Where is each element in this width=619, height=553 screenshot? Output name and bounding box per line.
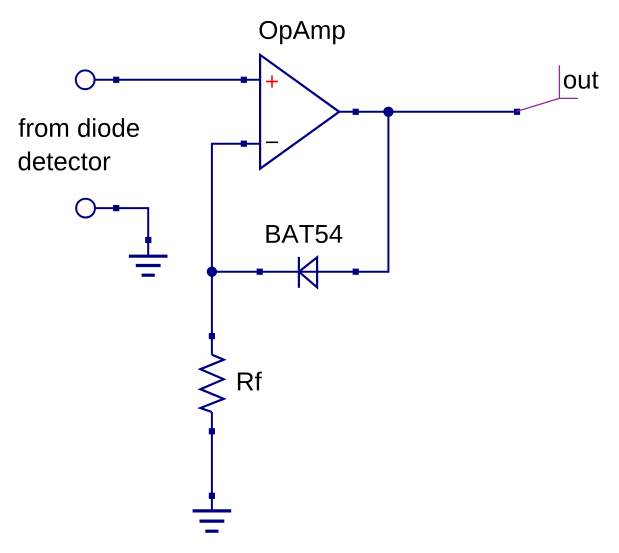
resistor Rf zigzag [200, 355, 223, 412]
feedback wire down from output node [387, 112, 389, 272]
pin square at op-amp + pin [241, 77, 247, 83]
junction node dot at output [383, 107, 393, 117]
op-amp + symbol [266, 75, 278, 87]
diode D1 triangle [299, 257, 317, 287]
wire from terminal P1 to op-amp + input [95, 79, 261, 81]
pin square below resistor [209, 428, 215, 434]
pin square on P1 wire [113, 77, 119, 83]
text detector [19, 152, 111, 171]
ground G2 [193, 511, 232, 531]
label Rf [238, 372, 262, 391]
wire below resistor to ground [211, 412, 213, 511]
pin square left of diode [257, 269, 263, 275]
terminal P2 [76, 199, 95, 218]
pin square above ground G1 [145, 237, 151, 243]
text from diode [19, 118, 139, 137]
wire from op-amp - input, left then down to node [212, 144, 260, 355]
ground G1 [129, 256, 168, 275]
node name out [564, 72, 599, 89]
feedback wire left to node [212, 271, 390, 273]
pin square above ground G2 [209, 493, 215, 499]
terminal P1 [76, 70, 95, 89]
node label out marker [517, 65, 578, 111]
pin square on P2 wire [113, 205, 119, 211]
op-amp output wire to out [339, 111, 517, 113]
pin square at op-amp output [353, 109, 359, 115]
pin square at wire end near out label [514, 109, 520, 115]
wire from terminal P2 to ground G1 [95, 208, 148, 256]
op-amp - symbol [266, 141, 278, 143]
label OpAmp [260, 21, 345, 44]
label BAT54 [266, 225, 342, 243]
junction node dot at inverting node [207, 267, 217, 277]
diode D1 cathode bar [298, 257, 300, 288]
pin square right of diode [353, 269, 359, 275]
pin square at op-amp - pin [241, 141, 247, 147]
pin square above resistor [209, 333, 215, 339]
op-amp U1 triangle [260, 55, 339, 169]
